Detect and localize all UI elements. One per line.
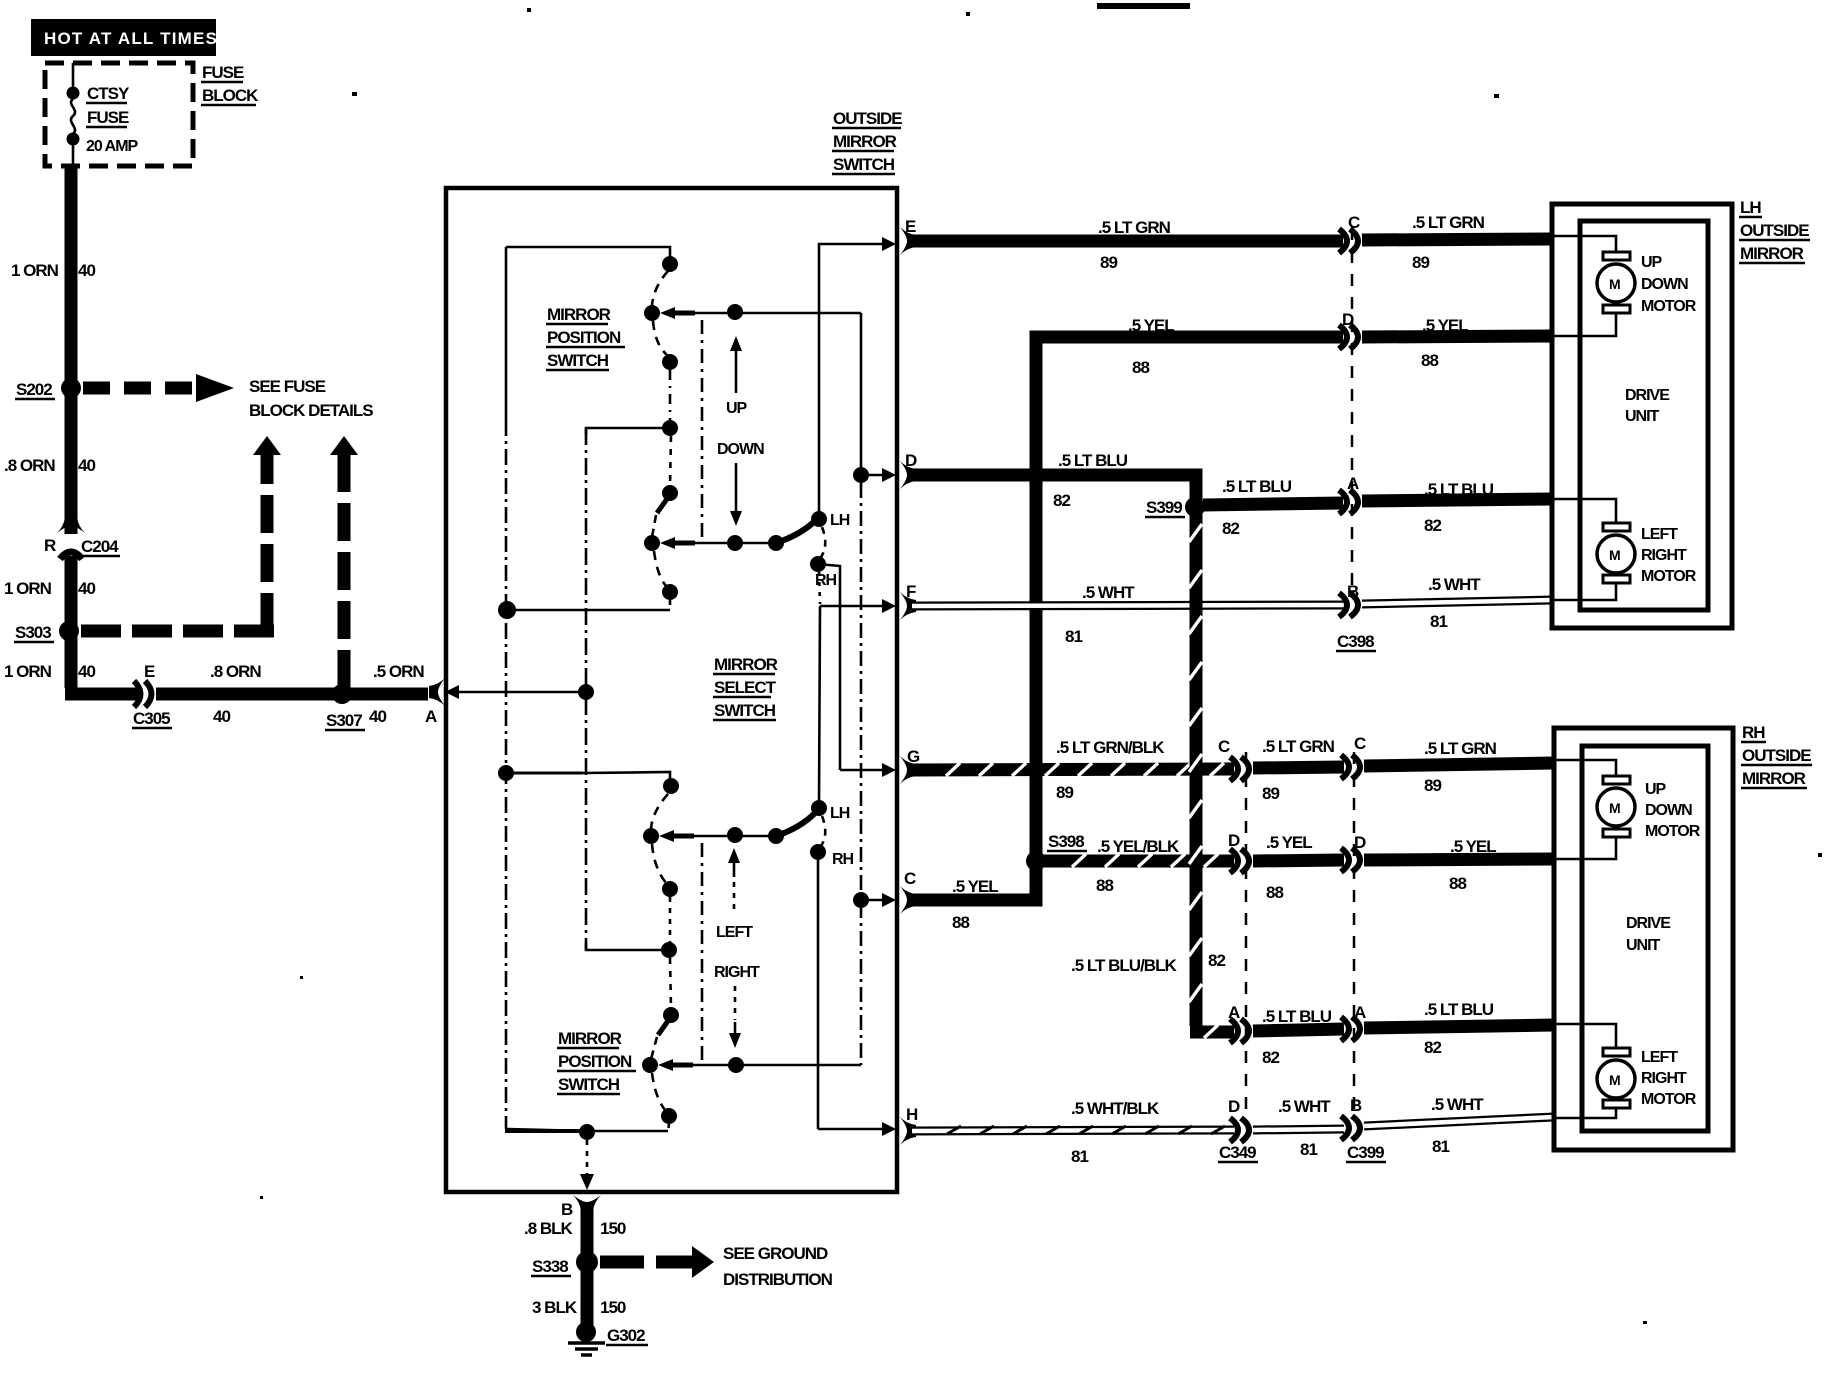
svg-text:.5 LT BLU: .5 LT BLU [1424, 1000, 1494, 1019]
node lower position bottom contact [661, 1108, 677, 1124]
svg-text:FUSE: FUSE [202, 63, 244, 82]
wire .5 WHT 81 (F to C398) white wire [912, 605, 1344, 606]
dashed arc to select wiper [651, 794, 668, 829]
svg-text:40: 40 [78, 579, 95, 598]
feed line to contact3 [586, 428, 670, 435]
fuse block dashed box [45, 63, 193, 166]
dotted below RH to F corner [819, 572, 820, 604]
svg-text:88: 88 [1421, 351, 1438, 370]
dashed arc LH-RH upper [821, 527, 825, 557]
svg-text:.5 YEL: .5 YEL [952, 877, 998, 896]
connector C204 [44, 517, 120, 559]
wire .5 WHT 81 (C399 to RH mirror) white [1364, 1117, 1554, 1126]
wire .5 LT BLU/BLK 82 (S399 down to C349) hatched [1189, 514, 1202, 1026]
svg-text:.5 WHT/BLK: .5 WHT/BLK [1071, 1099, 1160, 1118]
svg-text:S399: S399 [1146, 498, 1182, 517]
wire .5 LT BLU 82 (C398 to LH mirror) [1362, 499, 1552, 501]
svg-text:CTSY: CTSY [87, 84, 130, 103]
wire .8 ORN 40 (S202 to C204) [65, 388, 78, 534]
svg-text:M: M [1609, 800, 1620, 816]
svg-text:RIGHT: RIGHT [1641, 1070, 1687, 1087]
wire .5 LT GRN 89 (E to C398) [913, 235, 1343, 248]
wire horizontal run to C305 [65, 688, 139, 701]
svg-text:1 ORN: 1 ORN [11, 261, 59, 280]
svg-text:C398: C398 [1337, 632, 1374, 651]
wire .5 LT BLU (C349 to C399) [1253, 1029, 1344, 1031]
dashed wire S303 to riser [81, 625, 278, 638]
select feed line (bus to select contact) [498, 765, 670, 781]
svg-text:.5 YEL: .5 YEL [1422, 316, 1468, 335]
svg-text:.5 LT BLU: .5 LT BLU [1222, 477, 1292, 496]
dashed arc wiper to bottom contact [652, 1073, 665, 1110]
svg-text:89: 89 [1056, 783, 1073, 802]
node upper position contact 4 [662, 485, 678, 501]
MIRROR POSITION SWITCH label (lower) [557, 1029, 636, 1094]
svg-text:B: B [1350, 1096, 1362, 1115]
svg-text:.5 LT GRN: .5 LT GRN [1098, 218, 1171, 237]
svg-text:S338: S338 [532, 1257, 568, 1276]
LH OUTSIDE MIRROR label [1739, 198, 1810, 263]
wire .5 YEL 88 (C399 to RH mirror) [1364, 859, 1554, 860]
MIRROR SELECT SWITCH label [713, 655, 778, 720]
svg-text:89: 89 [1262, 784, 1279, 803]
node upper position contact 2 [662, 354, 678, 370]
svg-text:S303: S303 [15, 623, 51, 642]
svg-text:82: 82 [1053, 491, 1070, 510]
C399 dashed line [1353, 752, 1356, 1115]
svg-text:MIRROR: MIRROR [547, 305, 611, 324]
svg-text:C399: C399 [1347, 1143, 1384, 1162]
wire .5 YEL/BLK 88 (S398 to C349) hatched [1044, 854, 1234, 867]
ground G302 [568, 1322, 648, 1355]
dashed riser arrow 1 [253, 436, 281, 631]
svg-text:40: 40 [78, 662, 95, 681]
svg-text:H: H [906, 1105, 918, 1124]
svg-text:LEFT: LEFT [1641, 1049, 1678, 1066]
node upper position contact 1 [662, 256, 678, 272]
svg-text:R: R [44, 536, 56, 555]
LH left right motor wiring [1554, 499, 1616, 523]
svg-text:.5 YEL/BLK: .5 YEL/BLK [1097, 837, 1180, 856]
svg-text:OUTSIDE: OUTSIDE [833, 109, 902, 128]
dash link contact2-contact3 [669, 370, 672, 421]
mechanical link column (left/right) [701, 843, 704, 1060]
wire 1 ORN 40 (S303 to corner) [65, 631, 78, 688]
svg-text:C: C [1354, 734, 1366, 753]
svg-text:BLOCK DETAILS: BLOCK DETAILS [249, 401, 373, 420]
svg-text:FUSE: FUSE [87, 108, 129, 127]
svg-text:MOTOR: MOTOR [1641, 568, 1697, 585]
svg-text:MIRROR: MIRROR [833, 132, 897, 151]
svg-text:MOTOR: MOTOR [1645, 823, 1701, 840]
node wiper2 (up/down common) [644, 535, 660, 551]
svg-text:MOTOR: MOTOR [1641, 298, 1697, 315]
svg-text:82: 82 [1424, 516, 1441, 535]
dashed arc wiper1 to contact2 [653, 321, 668, 356]
A terminal internal line [445, 684, 594, 700]
svg-text:.5 WHT: .5 WHT [1278, 1097, 1331, 1116]
svg-text:40: 40 [78, 456, 95, 475]
svg-text:MIRROR: MIRROR [1740, 244, 1804, 263]
svg-text:.5 LT BLU: .5 LT BLU [1262, 1007, 1332, 1026]
dotted dropper to B terminal [586, 1140, 589, 1176]
svg-text:.5 WHT: .5 WHT [1431, 1095, 1484, 1114]
svg-text:1 ORN: 1 ORN [4, 662, 52, 681]
splice S338 [576, 1251, 598, 1273]
svg-text:.5 LT BLU: .5 LT BLU [1424, 480, 1494, 499]
MIRROR POSITION SWITCH label (upper) [546, 305, 625, 370]
svg-text:UNIT: UNIT [1625, 408, 1660, 425]
node wiper1 (up/down) [644, 305, 660, 321]
svg-text:G302: G302 [607, 1326, 645, 1345]
svg-text:M: M [1609, 276, 1620, 292]
svg-text:81: 81 [1430, 612, 1447, 631]
splice S202 [61, 378, 81, 398]
node select bottom contact [662, 881, 678, 897]
svg-text:M: M [1609, 1072, 1620, 1088]
wiper1 arrow [660, 307, 675, 319]
outside mirror switch box [446, 188, 897, 1192]
svg-text:.5 LT BLU/BLK: .5 LT BLU/BLK [1071, 956, 1177, 975]
svg-text:40: 40 [78, 261, 95, 280]
lower position switch feed line [586, 943, 664, 950]
node junction up-arrow [727, 304, 743, 320]
svg-text:88: 88 [1266, 883, 1283, 902]
svg-text:.5 WHT: .5 WHT [1082, 583, 1135, 602]
H column RH to H line [817, 860, 820, 1129]
node select upper RH [810, 556, 826, 572]
drop from contact5 to return line [669, 600, 672, 610]
svg-text:RH: RH [832, 851, 854, 868]
dotted link to position contact [669, 897, 672, 944]
svg-text:.8 ORN: .8 ORN [4, 456, 55, 475]
svg-text:.5 ORN: .5 ORN [373, 662, 424, 681]
svg-text:C: C [1218, 737, 1230, 756]
svg-text:82: 82 [1208, 951, 1225, 970]
select switch upper: common to LH blade [768, 535, 784, 551]
splice S399 [1185, 497, 1205, 517]
internal wire: left bus column [505, 247, 588, 1131]
splice S307 [332, 684, 352, 704]
dashed arc contact1 to wiper1 [652, 271, 668, 306]
svg-text:150: 150 [600, 1298, 626, 1317]
svg-text:S202: S202 [16, 380, 52, 399]
dashed arrow SEE FUSE BLOCK DETAILS [83, 374, 373, 420]
svg-text:RIGHT: RIGHT [714, 964, 760, 981]
svg-text:.5 LT GRN/BLK: .5 LT GRN/BLK [1056, 738, 1165, 757]
node junction down-arrow [727, 535, 743, 551]
dashed arc wiper2 to contact5 [654, 551, 666, 586]
svg-text:.5 LT GRN: .5 LT GRN [1262, 737, 1335, 756]
node upper position contact 3 [662, 420, 678, 436]
svg-text:SWITCH: SWITCH [714, 701, 776, 720]
FUSE BLOCK label [201, 63, 259, 105]
wire 1 ORN 40 (fuse to S202) [65, 167, 78, 388]
svg-text:DOWN: DOWN [1641, 276, 1688, 293]
RH left right motor [1597, 1048, 1635, 1108]
connector C305 [132, 681, 172, 728]
svg-text:DOWN: DOWN [717, 441, 764, 458]
drop to bottom return line [668, 1124, 669, 1131]
wire .5 LT BLU 82 (D to S399) [912, 475, 1196, 500]
node select wiper [643, 828, 659, 844]
E column (LH select to E terminal) [819, 244, 884, 519]
RH outside mirror box [1554, 728, 1733, 1150]
F column and line [820, 605, 884, 608]
svg-text:UNIT: UNIT [1626, 937, 1661, 954]
svg-text:.5 LT GRN: .5 LT GRN [1424, 739, 1497, 758]
wire .5 WHT/BLK 81 (H to C349) white hatched [912, 1126, 1234, 1134]
svg-text:1 ORN: 1 ORN [4, 579, 52, 598]
wire corner to C349 pin A hatched [1190, 1025, 1234, 1038]
svg-text:.5 LT BLU: .5 LT BLU [1058, 451, 1128, 470]
svg-text:C: C [904, 869, 916, 888]
node on left bus [498, 601, 516, 619]
LEFT arrow [716, 848, 753, 941]
svg-text:OUTSIDE: OUTSIDE [1742, 746, 1811, 765]
svg-text:88: 88 [1132, 358, 1149, 377]
wire .5 LT BLU 82 (S399 to C398) [1203, 503, 1343, 505]
G line to terminal [840, 769, 884, 772]
svg-text:81: 81 [1071, 1147, 1088, 1166]
svg-text:40: 40 [369, 707, 386, 726]
svg-text:D: D [1228, 831, 1240, 850]
wire .5 WHT 81 (C398 to LH mirror) white wire [1362, 600, 1552, 604]
wire .5 YEL 88 (C to S398) [912, 867, 1036, 900]
svg-text:MIRROR: MIRROR [558, 1029, 622, 1048]
wire .5 LT BLU 82 (C399 to RH mirror) [1364, 1025, 1554, 1028]
svg-text:MIRROR: MIRROR [714, 655, 778, 674]
svg-text:UP: UP [726, 400, 748, 417]
svg-text:LH: LH [830, 512, 850, 529]
svg-text:82: 82 [1222, 519, 1239, 538]
svg-text:S398: S398 [1048, 832, 1084, 851]
svg-text:MOTOR: MOTOR [1641, 1091, 1697, 1108]
svg-text:S307: S307 [326, 711, 362, 730]
dotted link contact3-contact4 [670, 436, 671, 486]
svg-text:88: 88 [1096, 876, 1113, 895]
svg-text:RIGHT: RIGHT [1641, 547, 1687, 564]
svg-text:LEFT: LEFT [716, 924, 753, 941]
svg-text:HOT AT ALL TIMES: HOT AT ALL TIMES [44, 29, 218, 48]
node select upper LH [811, 511, 827, 527]
svg-text:SEE GROUND: SEE GROUND [723, 1244, 828, 1263]
node lower wiper [642, 1057, 658, 1073]
svg-text:.5 YEL: .5 YEL [1266, 833, 1312, 852]
svg-text:LH: LH [830, 805, 850, 822]
svg-text:3 BLK: 3 BLK [532, 1298, 578, 1317]
C349 dashed line [1245, 752, 1248, 1118]
terminal A (female, left edge of switch box) [429, 678, 445, 706]
wire .8 ORN 40 (C305 to S307) [156, 688, 342, 701]
node lower position contact 1 [661, 942, 677, 958]
select switch lower: common to LH blade [768, 828, 784, 844]
svg-text:POSITION: POSITION [547, 328, 621, 347]
node select lower contact top [663, 778, 679, 794]
svg-text:A: A [425, 707, 437, 726]
blade contact4 to wiper2 [657, 496, 669, 513]
RH up down motor [1597, 776, 1635, 837]
svg-text:89: 89 [1424, 776, 1441, 795]
svg-text:SWITCH: SWITCH [833, 155, 895, 174]
svg-text:89: 89 [1412, 253, 1429, 272]
D junction column [860, 313, 863, 475]
svg-text:.5 YEL: .5 YEL [1128, 316, 1174, 335]
RH OUTSIDE MIRROR label [1741, 723, 1812, 788]
UP arrow [726, 336, 748, 417]
wiper2 arrow [660, 537, 675, 549]
wire .5 LT GRN 89 (C399 to RH mirror) [1364, 763, 1554, 766]
wire .8 BLK 150 (B to S338) [581, 1207, 594, 1262]
LH up down motor [1597, 252, 1635, 313]
svg-text:B: B [561, 1200, 573, 1219]
svg-text:C305: C305 [133, 709, 170, 728]
OUTSIDE MIRROR SWITCH title [832, 109, 902, 174]
svg-text:LEFT: LEFT [1641, 526, 1678, 543]
wire .5 LT GRN/BLK 89 (G to C349) hatched [912, 763, 1234, 776]
node lower position contact 2 [663, 1007, 679, 1023]
svg-text:89: 89 [1100, 253, 1117, 272]
svg-text:20 AMP: 20 AMP [86, 138, 139, 155]
svg-text:MIRROR: MIRROR [1742, 769, 1806, 788]
svg-text:81: 81 [1300, 1140, 1317, 1159]
RH left right motor wiring [1556, 1024, 1616, 1048]
svg-text:.8 BLK: .8 BLK [524, 1219, 574, 1238]
svg-text:BLOCK: BLOCK [202, 86, 259, 105]
wire .5 YEL (C349 to C399) [1253, 860, 1344, 861]
splice S398 [1026, 851, 1046, 871]
svg-text:C349: C349 [1219, 1143, 1256, 1162]
svg-text:C204: C204 [81, 537, 119, 556]
wire .5 YEL 88 (S398 riser to C398) [1036, 337, 1343, 855]
svg-text:82: 82 [1424, 1038, 1441, 1057]
svg-text:DRIVE: DRIVE [1626, 915, 1671, 932]
LH up down motor wiring [1554, 236, 1616, 252]
svg-text:81: 81 [1065, 627, 1082, 646]
dashed riser arrow 2 (from S307) [330, 436, 358, 688]
dash-dot column D to C to lower wiper [860, 483, 863, 1065]
svg-text:LH: LH [1740, 198, 1761, 217]
internal wire: top feed line to upper contact [506, 247, 670, 260]
CTSY FUSE 20 AMP labels [86, 84, 139, 155]
dashed arc wiper to lower contact [652, 844, 666, 883]
svg-text:E: E [144, 662, 155, 681]
svg-text:SWITCH: SWITCH [558, 1075, 620, 1094]
RH to G column [818, 564, 840, 770]
splice S303 [59, 621, 79, 641]
svg-text:DISTRIBUTION: DISTRIBUTION [723, 1270, 833, 1289]
svg-text:SELECT: SELECT [714, 678, 777, 697]
svg-text:82: 82 [1262, 1048, 1279, 1067]
LH outside mirror box [1552, 204, 1732, 628]
DOWN arrow [717, 441, 764, 526]
RIGHT arrow [714, 964, 760, 1048]
svg-text:88: 88 [1449, 874, 1466, 893]
top scan artifact bar [1097, 3, 1190, 9]
svg-text:POSITION: POSITION [558, 1052, 632, 1071]
LH left right motor [1597, 523, 1635, 583]
svg-text:OUTSIDE: OUTSIDE [1740, 221, 1809, 240]
blade to lower wiper [658, 1018, 670, 1035]
supply column x=586 [585, 428, 588, 950]
svg-text:.5 YEL: .5 YEL [1450, 837, 1496, 856]
svg-text:D: D [1228, 1097, 1240, 1116]
svg-text:88: 88 [952, 913, 969, 932]
svg-text:.8 ORN: .8 ORN [210, 662, 261, 681]
svg-text:DRIVE: DRIVE [1625, 387, 1670, 404]
svg-text:.5 WHT: .5 WHT [1428, 575, 1481, 594]
svg-text:SWITCH: SWITCH [547, 351, 609, 370]
C398 dashed line [1351, 228, 1354, 592]
svg-text:150: 150 [600, 1219, 626, 1238]
svg-text:UP: UP [1641, 254, 1663, 271]
svg-text:SEE FUSE: SEE FUSE [249, 377, 326, 396]
svg-text:M: M [1609, 547, 1620, 563]
node B dropper [579, 1124, 595, 1140]
return line to left bus [507, 609, 670, 612]
HOT AT ALL TIMES label box [31, 19, 218, 56]
wire .5 YEL 88 (C398 to LH mirror) [1362, 336, 1552, 337]
node upper position contact 5 [662, 584, 678, 600]
svg-text:81: 81 [1432, 1137, 1449, 1156]
wire .5 LT GRN (C349 to C399) [1253, 767, 1344, 768]
wire 3 BLK 150 (S338 to G302) [581, 1262, 594, 1327]
wire .5 WHT (C349 to C399) white [1253, 1129, 1344, 1130]
svg-text:DOWN: DOWN [1645, 802, 1692, 819]
svg-text:.5 LT GRN: .5 LT GRN [1412, 213, 1485, 232]
svg-text:UP: UP [1645, 781, 1667, 798]
wire .5 ORN 40 (S307 to switch terminal A) [342, 688, 428, 701]
wire .5 LT GRN 89 (C398 to LH mirror) [1362, 239, 1552, 240]
dotted link [670, 958, 671, 1008]
svg-text:RH: RH [1742, 723, 1765, 742]
mechanical link column (up/down) [701, 320, 704, 540]
bottom return line [505, 1129, 590, 1133]
CTSY fuse element [67, 63, 80, 167]
wire 1 ORN 40 (C204 to S303) [65, 556, 78, 631]
dashed arrow SEE GROUND DISTRIBUTION [600, 1244, 833, 1289]
svg-text:40: 40 [213, 707, 230, 726]
RH up down motor wiring [1556, 760, 1616, 776]
